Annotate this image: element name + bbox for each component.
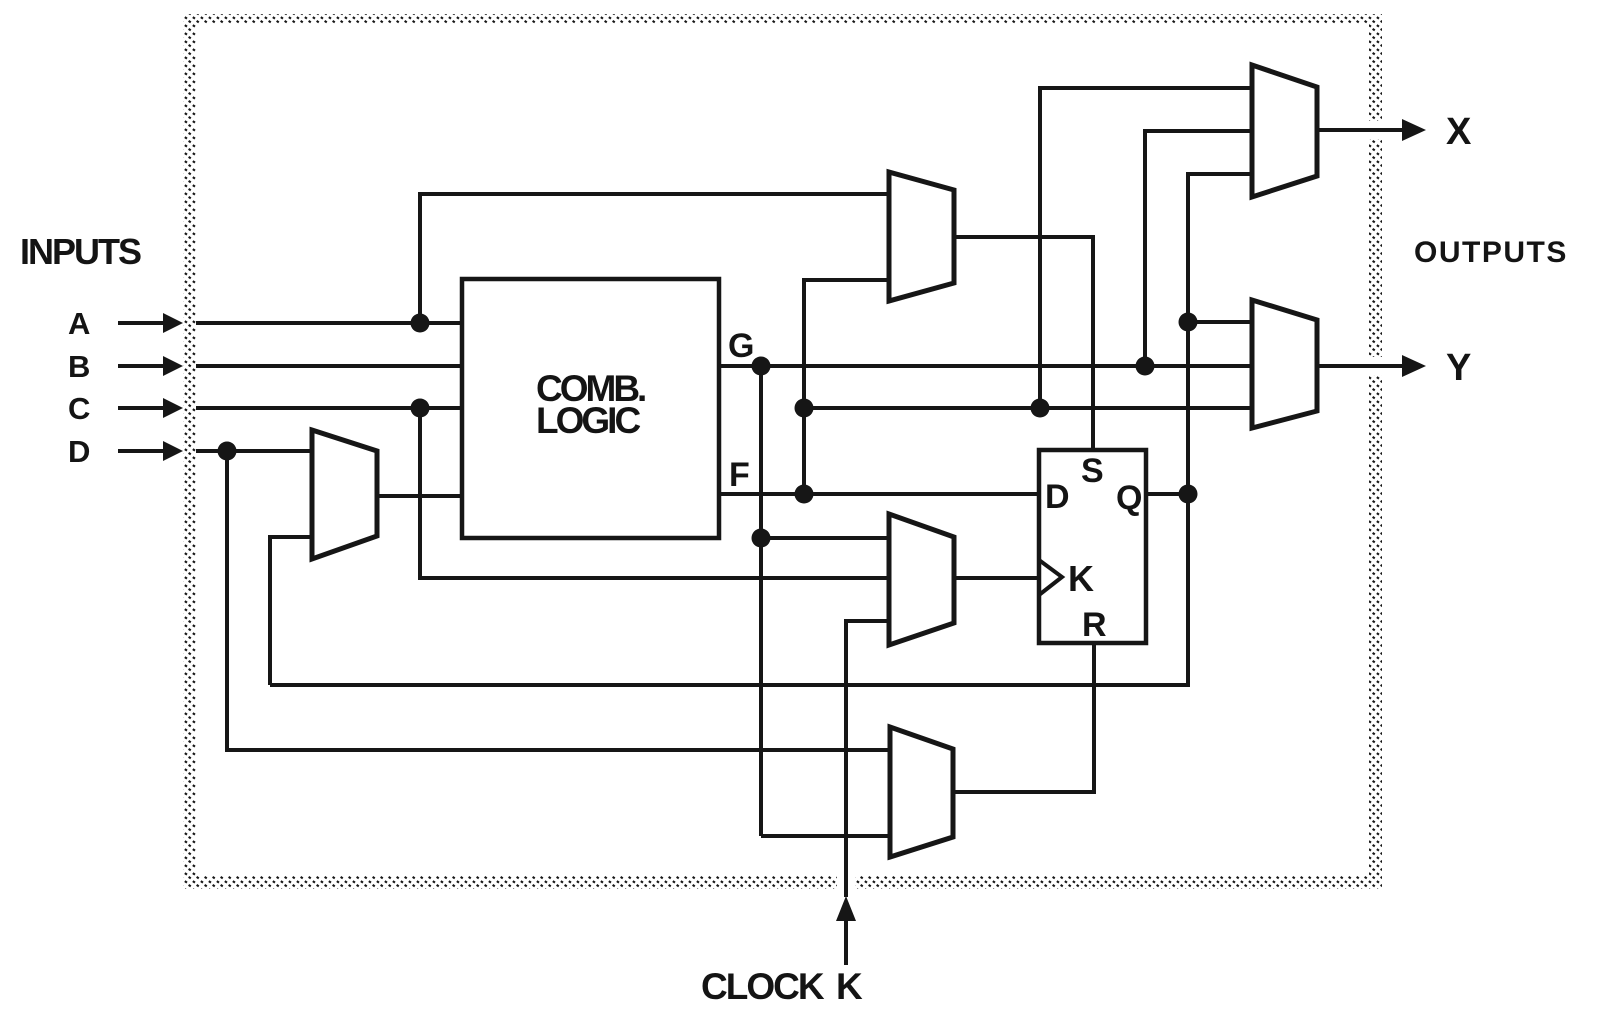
svg-text:C: C [68,391,90,426]
junction on Y line [1136,357,1155,376]
junction on D [218,442,237,461]
arrowhead input B [163,356,183,376]
arrowhead input D [163,441,183,461]
wire flip-flop Q output [1146,492,1188,496]
wire C to COMB.LOGIC [196,406,462,410]
junction F at vertical [795,485,814,504]
mux M3 (X output) [1252,65,1317,197]
svg-text:CLOCK: CLOCK [701,966,825,1007]
wire G branch down [759,366,763,836]
flip-flop U1 [1039,450,1146,644]
arrowhead input A [163,313,183,333]
wire G to mux M6 lower input [761,834,890,838]
svg-text:OUTPUTS: OUTPUTS [1414,236,1568,269]
junction node G [752,357,771,376]
svg-text:K: K [836,966,863,1007]
junction 408 line at X branch [1031,399,1050,418]
white notches where wires cross stippled border [846,130,1385,892]
svg-text:K: K [1068,558,1094,599]
arrowhead input C [163,398,183,418]
flip-flop clock wedge [1039,560,1062,595]
mux M1 (top center) [889,172,954,301]
wire Y mux output [1317,364,1408,368]
svg-text:X: X [1446,111,1472,153]
mux M5 (clock K selector) [889,514,954,645]
wire C branch down to K net [420,408,889,578]
wire Q feedback bottom run [270,174,1252,685]
arrowhead output Y [1402,355,1426,377]
wire input B outside [118,364,164,368]
wire X mux output [1317,128,1408,132]
wire Q to Y mux input [1188,320,1252,324]
wire flip-flop R to mux M6 output [953,643,1094,792]
svg-text:A: A [68,306,90,341]
junction on C [411,399,430,418]
svg-text:F: F [729,456,750,494]
mux M2 (input D selector) [312,430,377,559]
svg-text:S: S [1081,452,1104,490]
svg-text:Y: Y [1446,347,1471,389]
wire clock to mux M5 lower input [846,621,889,897]
junction G branch to M5 [752,529,771,548]
wire input C outside [118,406,164,410]
wire D branch down to mux M6 [227,451,890,750]
svg-text:LOGIC: LOGIC [536,400,640,441]
junction on A [411,314,430,333]
chip boundary stippled border [183,14,1382,889]
wire mux M2 output to COMB.LOGIC [377,494,462,498]
wire clock lead [844,920,848,965]
svg-text:D: D [68,434,90,469]
wire node F to flip-flop D [719,492,1039,496]
svg-text:G: G [728,327,754,365]
wire A to COMB.LOGIC [196,321,462,325]
wire G to mux M5 top input [761,536,889,540]
svg-text:R: R [1082,606,1107,644]
svg-text:D: D [1045,478,1070,516]
junction F/408 line [795,399,814,418]
wire branch up to X mux top input [1040,88,1252,408]
wire A branch up [420,194,889,323]
wire mux M1 output to flip-flop S [954,237,1093,450]
junction Q feedback to Y mux [1179,313,1198,332]
svg-text:B: B [68,349,90,384]
mux M6 (bottom) [890,727,953,857]
wire B to COMB.LOGIC [196,364,462,368]
wire node G to Y mux [719,364,1252,368]
arrowhead clock [836,896,856,921]
wire F branch to Y mux lower input [804,406,1252,410]
wire Y line branch up to X mux mid input [1145,131,1252,366]
wire mux M5 output to flip-flop K [954,576,1039,580]
wire input D outside [118,449,164,453]
wire input A outside [118,321,164,325]
wire D to mux M2 [196,449,312,453]
wire F branch up to mux M1 [804,280,889,494]
wire mux M2 lower input from Q feedback [270,537,312,685]
svg-text:Q: Q [1116,479,1142,517]
junction Q output [1179,485,1198,504]
svg-text:INPUTS: INPUTS [20,231,141,272]
block COMB. LOGIC [462,279,719,538]
mux M4 (Y output) [1252,300,1317,428]
arrowhead output X [1402,119,1426,141]
